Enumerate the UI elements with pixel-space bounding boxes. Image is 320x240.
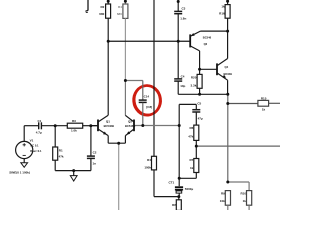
svg-text:47k: 47k [188, 134, 193, 138]
svg-text:1k: 1k [190, 166, 194, 170]
svg-text:3.3k: 3.3k [191, 84, 197, 88]
svg-text:C2: C2 [93, 150, 97, 154]
svg-text:680: 680 [99, 12, 104, 16]
svg-text:AC 0.1: AC 0.1 [30, 144, 39, 148]
svg-text:R6: R6 [189, 126, 193, 130]
svg-text:1.0k: 1.0k [71, 129, 77, 133]
svg-text:R4: R4 [118, 5, 122, 9]
svg-text:C5: C5 [197, 102, 201, 106]
svg-text:R3: R3 [72, 119, 76, 123]
svg-text:V1: V1 [30, 139, 34, 143]
svg-text:Q4: Q4 [225, 65, 229, 69]
svg-text:SINE(0 1 100k): SINE(0 1 100k) [9, 171, 30, 175]
svg-text:BC546B: BC546B [125, 124, 135, 128]
svg-text:[C8]: [C8] [146, 105, 152, 109]
svg-text:100k: 100k [144, 165, 151, 169]
svg-text:5000µ: 5000µ [185, 187, 194, 191]
svg-text:C3: C3 [182, 7, 186, 11]
svg-text:1k: 1k [243, 199, 247, 203]
svg-text:R9: R9 [221, 191, 225, 195]
svg-text:BC546B: BC546B [104, 124, 114, 128]
svg-text:Q3: Q3 [204, 42, 208, 46]
svg-text:R2: R2 [100, 5, 104, 9]
svg-text:C1: C1 [38, 119, 42, 123]
svg-text:10p: 10p [180, 84, 185, 88]
svg-text:1.8n: 1.8n [180, 16, 186, 20]
svg-text:BC546: BC546 [203, 35, 212, 39]
svg-text:Q2: Q2 [128, 120, 132, 124]
svg-text:Rser=0.1: Rser=0.1 [30, 149, 42, 153]
svg-text:10k: 10k [220, 199, 225, 203]
svg-text:Q1: Q1 [106, 120, 110, 124]
svg-text:R4: R4 [147, 158, 151, 162]
svg-text:C4: C4 [181, 74, 185, 78]
svg-text:1k: 1k [221, 5, 225, 9]
svg-text:C14: C14 [144, 94, 150, 98]
svg-text:R8: R8 [172, 203, 176, 207]
svg-text:R10: R10 [240, 191, 246, 195]
svg-text:R15: R15 [261, 96, 267, 100]
svg-text:47k: 47k [59, 155, 64, 159]
svg-text:1k: 1k [262, 108, 266, 112]
svg-text:4.7µ: 4.7µ [36, 130, 42, 134]
svg-text:R7: R7 [189, 158, 193, 162]
svg-text:1n: 1n [93, 161, 97, 165]
svg-text:47µ: 47µ [198, 117, 203, 121]
svg-text:R16: R16 [219, 11, 225, 15]
svg-text:R1: R1 [59, 148, 63, 152]
svg-text:R20: R20 [191, 76, 197, 80]
svg-text:BD439: BD439 [224, 72, 233, 76]
svg-text:CT1: CT1 [169, 181, 175, 185]
svg-text:680: 680 [117, 12, 122, 16]
